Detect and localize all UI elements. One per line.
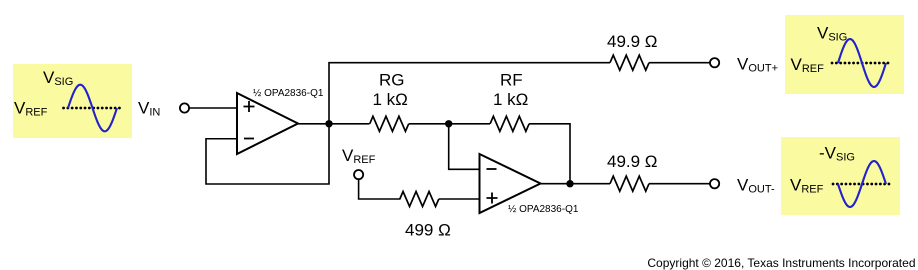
resistor 499 ohm [400,192,439,207]
op-amp U2 plus input symbol [487,193,498,204]
node C junction dot [566,180,573,187]
wire node B to resistor RF [449,123,490,125]
svg-text:Copyright © 2016, Texas Instru: Copyright © 2016, Texas Instruments Inco… [647,256,915,270]
node B junction dot [445,120,452,127]
sine wave (top-right box) [838,39,886,87]
output terminal VOUT- [710,179,719,188]
VREF terminal [354,170,363,179]
wire node A to resistor RG [329,123,370,125]
resistor RF [490,116,529,131]
wire RG to node B [409,123,449,125]
dotted reference line (bottom-right box) [833,183,892,186]
svg-text:499 Ω: 499 Ω [405,221,451,240]
svg-text:49.9 Ω: 49.9 Ω [607,32,658,51]
svg-text:VOUT-: VOUT- [737,176,775,196]
input terminal VIN [180,103,189,112]
wire RF to U2 output node C [529,124,570,184]
svg-text:VREF: VREF [342,146,376,166]
sine wave inverted (bottom-right box) [838,161,886,207]
output terminal VOUT+ [710,58,719,67]
dotted reference line (top-right box) [832,62,891,65]
resistor RG [370,116,409,131]
svg-text:VIN: VIN [138,99,160,119]
wire 499 ohm to U2 non-inverting input [439,198,480,200]
svg-text:½ OPA2836-Q1: ½ OPA2836-Q1 [253,88,324,99]
left input signal box [13,64,132,138]
node A junction dot [325,120,332,127]
svg-text:RG: RG [379,71,405,90]
svg-text:VOUT+: VOUT+ [737,55,778,75]
bottom-right output signal box [781,137,900,215]
op-amp U2 [480,154,541,213]
top-right output signal box [785,15,904,94]
wire resistor to VOUT+ terminal [649,62,710,64]
wire node B down to U2 inverting input [449,124,480,170]
feedback wire U1 output to inverting input [206,124,329,184]
wire VIN to op-amp U1 + input [189,107,237,109]
op-amp U2 minus input symbol [487,168,497,170]
wire VREF terminal to resistor 499 ohm [359,179,401,199]
wire node A up to VOUT+ rail [329,63,610,124]
op-amp U1 plus input symbol [244,101,255,112]
op-amp U1 [237,93,298,154]
resistor 49.9 ohm (top) [610,55,649,70]
svg-text:49.9 Ω: 49.9 Ω [607,152,658,171]
resistor 49.9 ohm (bottom) [610,176,649,191]
sine wave (left box) [68,85,117,132]
svg-text:RF: RF [500,71,523,90]
svg-text:1 kΩ: 1 kΩ [373,90,408,109]
dotted reference line (left box) [64,107,124,110]
wire U2 output to node C [541,183,571,185]
wire resistor to VOUT- terminal [649,183,710,185]
svg-text:1 kΩ: 1 kΩ [493,90,528,109]
wire node C to resistor 49.9 ohm (bottom) [570,183,610,185]
wire U1 output to node A [298,123,329,125]
svg-text:½ OPA2836-Q1: ½ OPA2836-Q1 [508,204,579,215]
op-amp U1 minus input symbol [244,138,254,140]
